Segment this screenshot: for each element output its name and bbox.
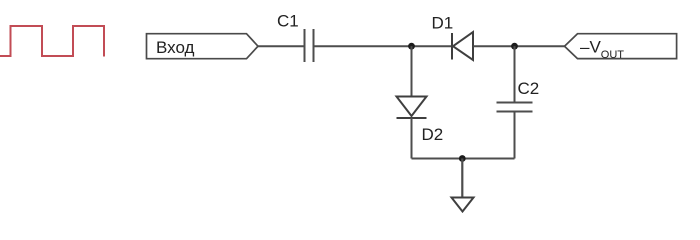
svg-text:C2: C2 bbox=[518, 79, 540, 98]
wire C1 to D1 cathode bbox=[314, 45, 453, 47]
wire C2 to bottom rail bbox=[514, 112, 516, 159]
wire node to C2 bbox=[514, 46, 516, 102]
diode D1 bbox=[452, 32, 473, 60]
svg-text:Вход: Вход bbox=[156, 38, 195, 57]
wire D2 to bottom rail bbox=[411, 118, 413, 159]
node junction dot (top of D2) bbox=[408, 43, 415, 50]
node junction dot (top of C2) bbox=[511, 43, 518, 50]
svg-text:D1: D1 bbox=[432, 14, 454, 33]
bottom rail wire bbox=[412, 158, 515, 160]
capacitor C2 bbox=[497, 103, 533, 112]
diode D2 bbox=[397, 97, 427, 119]
wire input tag to C1 bbox=[258, 45, 305, 47]
wire node to D2 bbox=[411, 46, 413, 96]
input tag Вход bbox=[147, 34, 259, 59]
wire D1 anode to output node bbox=[474, 45, 565, 47]
svg-text:D2: D2 bbox=[422, 125, 444, 144]
wire to ground bbox=[461, 159, 463, 198]
svg-text:C1: C1 bbox=[277, 12, 299, 31]
ground bbox=[452, 198, 474, 212]
output tag -VOUT bbox=[565, 34, 677, 59]
ground junction dot bbox=[459, 155, 466, 162]
input square-wave signal (red) bbox=[0, 26, 104, 57]
capacitor C1 bbox=[305, 29, 314, 62]
